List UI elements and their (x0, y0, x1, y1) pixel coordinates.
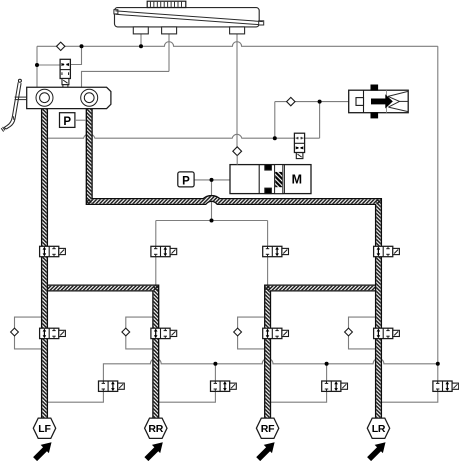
junction: reservoir left port on return line (139, 44, 143, 48)
junction: pump outlet loop corner (318, 100, 322, 104)
valve: LR inlet solenoid valve (374, 246, 400, 256)
wire: reservoir right port / pump suction drop, x=237 (236, 34, 238, 147)
wire: accumulator feed drop, x=211.5 (211, 180, 213, 221)
valve: RF inlet solenoid valve (263, 246, 289, 256)
booster: outlet chevron detail (388, 91, 408, 111)
master cylinder: secondary piston port (81, 89, 98, 106)
valve: RF release solenoid valve (322, 381, 348, 391)
wire: LF release valve outlet to LF pipe (47, 391, 104, 402)
wire: LR bypass loop (349, 317, 379, 349)
junction: return line / valve branch (80, 44, 84, 48)
wire: RR release valve outlet to RR pipe (158, 391, 216, 402)
junction: distribution header center (210, 219, 214, 223)
wheel LF: brake caliper hexagon (33, 418, 55, 438)
check valve: LF bypass (11, 328, 19, 336)
wire: proportioning line y=138.2 with hops (47, 134, 320, 138)
brake pedal lever (1, 79, 21, 131)
wire: pump suction stub (236, 156, 238, 165)
wire: LR release valve outlet to LR pipe (381, 391, 438, 402)
pedal push rod (15, 97, 27, 100)
master cylinder: body (27, 87, 111, 108)
wire: distribution header y=220.5 (156, 220, 268, 222)
wire: reservoir left port drop, x=141 (140, 34, 142, 47)
wire: reservoir center port drop, x=169 (168, 34, 170, 72)
pipe: RR branch (crossover to RR) (45, 288, 156, 418)
svg-text:LF: LF (38, 423, 51, 435)
junction: proportioning line / pump outlet riser (273, 136, 277, 140)
junction: P switch line / accumulator drop (210, 178, 214, 182)
pipe: primary circuit LF vertical (41, 106, 48, 418)
wire: RR release valve riser (214, 364, 216, 382)
check valve: RF bypass (234, 328, 242, 336)
junction: return header / RF riser (325, 362, 329, 366)
reservoir: left outlet port (133, 27, 148, 34)
wire: left drop from return line to master cylinder, x=37 (36, 46, 38, 87)
check valve: pump outlet (287, 97, 295, 105)
valve: LF inlet solenoid valve (40, 246, 66, 256)
wire: branch dot to valve left port (37, 64, 60, 66)
svg-text:LR: LR (372, 423, 386, 435)
wire: right return riser x=437.8 (437, 46, 439, 381)
wheel LR: brake caliper hexagon (367, 418, 389, 438)
wire: master-cylinder rear chamber to reservoir center port (82, 71, 170, 87)
junction: return header / right riser (436, 362, 440, 366)
wire: RF release valve outlet to RF pipe (270, 391, 327, 402)
pressure switch P (pump outlet) (178, 172, 194, 187)
valve: RR inlet solenoid valve (151, 246, 177, 256)
master cylinder: primary piston port (36, 89, 53, 106)
wire: RR bypass loop (126, 317, 156, 349)
wire: RR inlet branch upper, x=155.8 (155, 221, 157, 247)
svg-text:RR: RR (148, 423, 163, 435)
wheel RF: rotation arrow (256, 442, 274, 461)
reservoir: center outlet port (162, 27, 177, 34)
check valve: LR bypass (345, 328, 353, 336)
wire: P switch to secondary pipe (75, 119, 86, 121)
wheel RR: rotation arrow (144, 442, 162, 461)
valve: RR hold solenoid valve (151, 328, 177, 338)
wheel RR: brake caliper hexagon (145, 418, 167, 438)
valve U2: pump pressure regulator valve body (294, 133, 304, 152)
valve U2: solenoid actuator (296, 153, 303, 159)
valve: LR hold solenoid valve (374, 328, 400, 338)
pressure switch P (master cylinder line) (60, 113, 75, 128)
pipe: RF branch (crossover to RF) (268, 288, 379, 418)
wire: valve right port up to return line (70, 46, 81, 64)
wire: LF bypass loop (15, 317, 45, 349)
svg-text:RF: RF (261, 423, 275, 435)
wheel LR: rotation arrow (367, 442, 385, 461)
wire: RF inlet branch lower, x=267.6 (267, 256, 269, 285)
wire: RF bypass loop (238, 317, 268, 349)
valve U1: solenoid actuator and mount stub (62, 79, 69, 88)
svg-text:P: P (182, 175, 190, 187)
wire: RF inlet branch upper, x=267.6 (267, 221, 269, 247)
wire: RR inlet branch lower, x=155.8 (155, 256, 157, 285)
valve: LF hold solenoid valve (40, 328, 66, 338)
reservoir: brake fluid reservoir body (114, 8, 264, 27)
wire: pump outlet riser left, x=274.8 (274, 102, 276, 139)
booster: upper mount tab (371, 85, 378, 90)
pipe: secondary circuit - rear chamber down, across, LR down (89, 106, 378, 418)
reservoir: right outlet port (230, 27, 245, 34)
check valve: RR bypass (122, 328, 130, 336)
wire: pump outlet riser right, x=319.6 (319, 102, 321, 139)
svg-text:P: P (63, 116, 71, 128)
wire: low-pressure return line from reservoir, y=46.3 (37, 42, 438, 47)
booster: lower mount tab (371, 113, 378, 118)
wire: pressure switch to pump, y=179.9 (194, 179, 230, 181)
wire: check-valve loop top, y=101.6 (275, 101, 349, 103)
junction: return header / RR riser (213, 362, 217, 366)
booster/accumulator body (349, 90, 409, 113)
pump and motor unit M (230, 165, 311, 194)
wheel RF: brake caliper hexagon (256, 418, 278, 438)
check valve: return line (top left) (57, 42, 65, 50)
valve: RF hold solenoid valve (263, 328, 289, 338)
junction: left drop / valve left port (35, 63, 39, 67)
valve: RR release solenoid valve (211, 381, 237, 391)
valve U1: central/changeover solenoid valve body (60, 59, 70, 78)
valve: LR release solenoid valve (433, 381, 459, 391)
reservoir: filler cap with ribbing (147, 1, 186, 7)
wire: RF release valve riser (326, 364, 328, 382)
wire: release return header y=363.8 (103, 358, 437, 381)
check valve: pump suction (from reservoir) (233, 147, 242, 156)
booster: pressure flow arrow (371, 94, 393, 108)
valve: LF release solenoid valve (99, 381, 125, 391)
wheel LF: rotation arrow (33, 442, 51, 461)
svg-text:M: M (292, 173, 302, 187)
